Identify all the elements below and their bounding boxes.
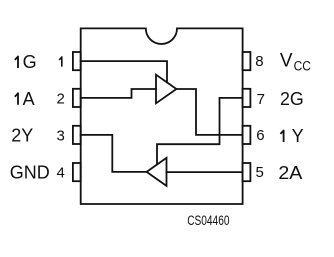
svg-text:CS04460: CS04460 xyxy=(187,213,229,229)
svg-text:2: 2 xyxy=(57,90,65,107)
svg-text:2Y: 2Y xyxy=(11,126,33,146)
svg-text:G: G xyxy=(23,52,37,72)
svg-text:V: V xyxy=(280,50,293,71)
svg-text:4: 4 xyxy=(57,165,65,182)
svg-text:2A: 2A xyxy=(278,163,302,183)
svg-text:Y: Y xyxy=(292,126,304,146)
svg-text:GND: GND xyxy=(10,162,50,182)
svg-text:6: 6 xyxy=(256,127,264,144)
svg-text:3: 3 xyxy=(57,127,65,144)
svg-text:7: 7 xyxy=(257,91,265,108)
svg-text:2G: 2G xyxy=(280,89,304,109)
svg-text:CC: CC xyxy=(294,58,312,73)
svg-text:8: 8 xyxy=(255,53,263,70)
svg-text:A: A xyxy=(23,89,35,109)
svg-text:5: 5 xyxy=(256,164,264,181)
